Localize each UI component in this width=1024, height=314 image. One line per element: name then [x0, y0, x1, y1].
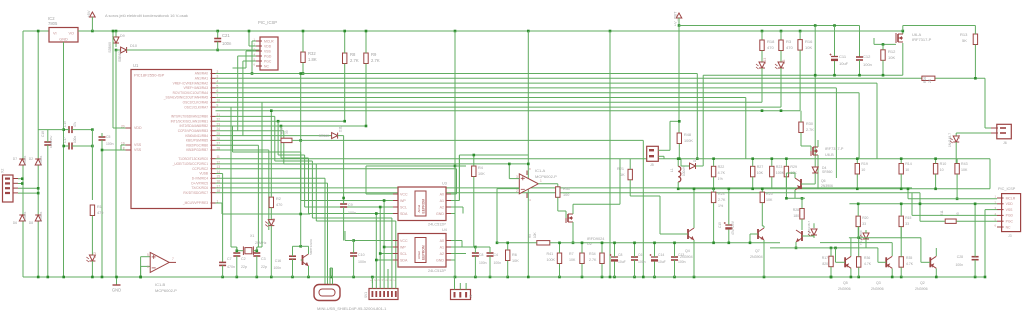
svg-text:24LC512P: 24LC512P — [428, 223, 446, 227]
wire xtal right — [253, 250, 256, 252]
svg-text:7: 7 — [172, 257, 174, 261]
junction — [21, 177, 24, 180]
svg-text:33: 33 — [862, 222, 866, 226]
opamp A power stubs — [526, 171, 528, 176]
junction — [902, 30, 905, 33]
svg-text:VREF+/AN3/RA3: VREF+/AN3/RA3 — [183, 86, 208, 90]
connector J3 PIC_ICSP bottom — [994, 194, 1020, 232]
svg-text:OSC1/CLKI/RA7: OSC1/CLKI/RA7 — [184, 105, 208, 109]
wire R31 bot — [557, 197, 559, 211]
svg-text:100n: 100n — [494, 261, 502, 265]
wire R32 bottom — [302, 63, 304, 74]
wire j1 stub1 — [459, 283, 461, 290]
resistor R18 — [760, 40, 764, 51]
wire C18 top — [47, 130, 49, 142]
LED D12 — [86, 255, 95, 262]
svg-text:_MCLR/VPP/RE3: _MCLR/VPP/RE3 — [182, 201, 208, 205]
svg-text:Q2: Q2 — [920, 281, 925, 285]
wire R2 mid — [270, 208, 272, 220]
resistor R7 — [580, 253, 584, 264]
wire r6 bot — [507, 261, 509, 278]
wire j5 to r48 — [670, 120, 679, 122]
capacitor C15 47uF — [724, 222, 733, 230]
wire ICSP VSS stub — [246, 50, 256, 52]
wire drain up2 — [619, 159, 621, 205]
junction — [115, 30, 118, 33]
resistor R26 horizontal — [922, 76, 935, 80]
resistor R24 — [711, 192, 715, 203]
svg-text:R4: R4 — [478, 166, 483, 170]
wire col 643 — [642, 140, 644, 277]
svg-text:R26: R26 — [923, 77, 927, 83]
svg-text:C8: C8 — [618, 253, 622, 257]
junction — [799, 30, 802, 33]
resistor R6 — [506, 250, 510, 261]
diode D10 S5B60 — [121, 47, 127, 53]
svg-text:C11: C11 — [839, 54, 847, 59]
wire icsp2 mclr — [908, 198, 997, 200]
svg-text:R22: R22 — [718, 165, 725, 169]
junction — [375, 259, 378, 262]
svg-text:D-/VM/RC4: D-/VM/RC4 — [192, 177, 209, 181]
resistor R36 — [857, 257, 861, 268]
svg-text:INT0/FLT0/SDI/AN12/RB0: INT0/FLT0/SDI/AN12/RB0 — [171, 115, 208, 119]
wire vertical x528 — [527, 31, 529, 277]
wire SCL col — [379, 207, 381, 283]
wire C3 bot — [256, 256, 258, 277]
resistor R32 — [301, 52, 305, 63]
junction gnd rail — [633, 276, 636, 279]
wire R13 top — [974, 26, 976, 35]
wire c15 top — [728, 189, 730, 225]
svg-text:U1: U1 — [133, 63, 139, 68]
wire C11 bottom — [834, 61, 836, 75]
wire R16 top — [799, 31, 801, 40]
wire U4 GND — [451, 259, 455, 261]
wire U3 WP — [384, 200, 393, 202]
wire hdr gnd col — [371, 277, 373, 283]
junction gnd rail — [974, 276, 977, 279]
junction gnd rail — [371, 276, 374, 279]
svg-text:1%: 1% — [718, 204, 724, 208]
junction gnd rail — [236, 276, 239, 279]
wire C21 node to ICSP1 — [218, 49, 260, 51]
junction — [248, 30, 251, 33]
wire stair r2 — [277, 121, 279, 155]
wire SCL row — [305, 206, 381, 208]
wire bus B row — [216, 139, 282, 141]
svg-text:100n: 100n — [73, 136, 77, 143]
svg-text:R25: R25 — [766, 192, 773, 196]
wire r25 top — [761, 189, 763, 192]
junction gnd rail — [454, 276, 457, 279]
svg-text:C8: C8 — [479, 253, 483, 257]
resistor R31 — [556, 187, 560, 198]
junction — [633, 242, 636, 245]
wire icsp2 vss — [985, 209, 997, 211]
svg-text:D9: D9 — [120, 34, 125, 38]
svg-text:C12: C12 — [863, 54, 871, 59]
wire U3 A0 — [451, 193, 456, 195]
wire U4 a0a1 join — [461, 241, 463, 248]
svg-text:100n: 100n — [106, 142, 114, 146]
svg-text:Q3: Q3 — [876, 281, 881, 285]
wire j1 p1 — [454, 277, 456, 283]
resistor R14 — [899, 164, 903, 175]
wire U4 A1 — [451, 246, 462, 248]
wire R14 top — [900, 159, 902, 164]
svg-text:D13: D13 — [763, 58, 767, 64]
wire q6 emit down — [794, 190, 796, 198]
svg-text:R6: R6 — [512, 253, 517, 257]
wire c14 bot — [654, 261, 656, 277]
svg-text:NC: NC — [264, 64, 269, 68]
wire bus B row — [216, 115, 275, 117]
wire WP row — [301, 200, 384, 202]
wire xtal feed l — [231, 246, 237, 248]
junction — [677, 188, 680, 191]
junction — [280, 125, 283, 128]
svg-text:180: 180 — [793, 214, 799, 218]
wire row2 drop to J6 — [984, 78, 986, 128]
svg-text:2N3906: 2N3906 — [871, 287, 884, 291]
resistor R8 — [343, 53, 347, 64]
wire bus A row — [216, 87, 837, 89]
svg-text:470: 470 — [767, 45, 774, 50]
wire VSS left b — [121, 149, 126, 151]
n-mosfet U2 IRFD9024 — [566, 213, 573, 223]
junction gnd rail — [62, 276, 65, 279]
wire MCLR right — [222, 213, 310, 215]
wire R43 bot — [956, 174, 958, 199]
junction gnd rail — [307, 276, 310, 279]
svg-text:R34: R34 — [589, 252, 596, 256]
junction — [833, 74, 836, 77]
svg-text:4.7K: 4.7K — [906, 262, 914, 266]
wire X2p3 — [18, 187, 38, 189]
svg-text:R1: R1 — [97, 205, 102, 209]
wire q7 base drop — [749, 234, 751, 243]
wire VDD up to rail — [112, 31, 114, 128]
wire r29 ext — [785, 173, 787, 198]
svg-text:J6: J6 — [1003, 141, 1007, 145]
capacitor C2 22p — [233, 253, 240, 256]
svg-text:R8: R8 — [350, 52, 356, 57]
wire MCLR stub — [216, 202, 223, 204]
wire VTBT cap node line — [703, 74, 903, 76]
wire d1 l — [681, 165, 690, 167]
wire bus C row — [216, 173, 223, 175]
wire j5 p1 — [658, 149, 670, 151]
svg-text:C18: C18 — [41, 131, 45, 137]
wire R20 top — [857, 204, 859, 216]
resistor R3 — [779, 40, 783, 51]
junction — [375, 212, 378, 215]
junction gnd rail — [601, 276, 604, 279]
wire cascade col2 — [304, 155, 306, 207]
svg-text:J5: J5 — [650, 163, 654, 167]
wire sv1 stub3 — [383, 283, 385, 289]
wire q4 base — [660, 233, 688, 235]
wire header col g — [395, 221, 397, 283]
svg-text:RCV/T0CKI/C1OUT/RA4: RCV/T0CKI/C1OUT/RA4 — [173, 91, 209, 95]
resistor R2 — [269, 197, 273, 208]
wire opampB plus feed — [140, 257, 142, 277]
wire q6 coll join — [786, 172, 795, 174]
wire J6 pin1 — [985, 127, 991, 129]
wire T1 emit down — [308, 266, 310, 277]
wire T1 base stub — [301, 259, 303, 261]
wire +5V rail c — [455, 30, 903, 32]
svg-text:R30: R30 — [806, 122, 813, 126]
svg-text:VI: VI — [53, 32, 57, 36]
svg-text:SMBT2222A: SMBT2222A — [309, 239, 313, 255]
wire A in+ — [509, 178, 519, 180]
svg-text:VUSB: VUSB — [199, 172, 208, 176]
svg-text:KBI3/PGD/RB7: KBI3/PGD/RB7 — [186, 148, 208, 152]
wire R12 top — [882, 44, 884, 49]
wire cascade col5 — [315, 164, 317, 221]
wire q10 base ext — [802, 235, 814, 237]
wire L1 top — [677, 159, 679, 167]
wire c17 r — [72, 145, 92, 147]
svg-text:2N3904: 2N3904 — [680, 255, 693, 259]
wire in+ up — [508, 164, 510, 179]
junction — [801, 197, 804, 200]
wire q7 base — [750, 233, 758, 235]
wire bus A row — [216, 73, 698, 75]
junction — [749, 242, 752, 245]
junction — [830, 247, 833, 250]
junction — [383, 199, 386, 202]
junction — [609, 30, 612, 33]
wire row5 drop — [858, 93, 860, 159]
diode D6b 1N4001 — [19, 215, 25, 221]
wire u6b drain down — [817, 155, 819, 162]
svg-text:470: 470 — [276, 203, 282, 207]
wire bus B row — [216, 125, 367, 127]
wire opampB in- — [141, 265, 151, 267]
junction — [379, 206, 382, 209]
svg-text:S5B60: S5B60 — [118, 51, 122, 62]
wire SDA col — [375, 214, 377, 284]
svg-text:10K: 10K — [888, 55, 895, 60]
junction — [653, 242, 656, 245]
svg-text:10K: 10K — [766, 198, 773, 202]
junction q2 emit — [935, 276, 938, 279]
wire PGC col — [242, 61, 244, 136]
junction — [454, 165, 457, 168]
svg-text:INT2/SDA/AN8/RB2: INT2/SDA/AN8/RB2 — [179, 124, 208, 128]
svg-text:10uF: 10uF — [618, 260, 626, 264]
wire q2 emit dn — [935, 269, 937, 278]
svg-text:A2: A2 — [440, 252, 444, 256]
junction — [365, 30, 368, 33]
svg-text:D5: D5 — [272, 218, 276, 222]
resistor R41 — [557, 253, 561, 264]
wire VSS to C5 area — [102, 149, 121, 151]
wire SDA row — [309, 213, 377, 215]
wire R29 bot — [785, 177, 787, 189]
svg-text:VDD: VDD — [1006, 202, 1014, 206]
wire col92 mid — [91, 130, 93, 146]
junction — [857, 236, 860, 239]
wire R19 bot — [856, 174, 858, 189]
wire U3 GND — [451, 213, 455, 215]
wire C2 top — [236, 247, 238, 253]
resistor R12 — [881, 50, 885, 61]
wire R20 bot — [857, 227, 859, 239]
pin header SV1 — [369, 289, 398, 300]
wire c4 top — [489, 247, 491, 253]
svg-text:10: 10 — [861, 168, 865, 172]
wire U4 SDA — [376, 259, 393, 261]
svg-text:KBI0/AN11/RB4: KBI0/AN11/RB4 — [185, 134, 208, 138]
junction — [678, 120, 681, 123]
svg-text:C21: C21 — [222, 33, 230, 38]
junction — [761, 30, 764, 33]
svg-text:GND: GND — [59, 38, 68, 42]
wire r25 bot — [761, 203, 763, 226]
svg-text:470n: 470n — [227, 265, 235, 269]
svg-text:820: 820 — [822, 262, 828, 266]
svg-text:SR560: SR560 — [319, 134, 329, 138]
svg-text:2.7K: 2.7K — [718, 198, 726, 202]
svg-text:R19: R19 — [861, 162, 868, 166]
wire j5 up — [669, 121, 671, 150]
svg-text:X2: X2 — [1, 169, 5, 173]
svg-text:CCP1/RC2: CCP1/RC2 — [192, 167, 208, 171]
wire R13 bottom — [974, 45, 976, 79]
svg-text:IC1-A: IC1-A — [535, 168, 546, 173]
svg-text:PGD: PGD — [264, 54, 272, 58]
wire U3 VCC — [366, 193, 393, 195]
junction — [785, 197, 788, 200]
wire VSS down — [245, 51, 247, 68]
wire WP stair x — [232, 126, 234, 152]
junction — [343, 120, 346, 123]
wire icsp2 mclr up — [907, 189, 909, 199]
svg-text:EEPROM: EEPROM — [421, 199, 425, 214]
wire A0 col — [455, 169, 457, 194]
junction — [236, 249, 239, 252]
wire q4 base riser — [659, 196, 661, 234]
wire R18 top — [761, 31, 763, 40]
junction — [712, 242, 715, 245]
wire ICSP VDD stub — [249, 45, 256, 47]
junction gnd rail — [474, 276, 477, 279]
wire U4 vcc up — [344, 231, 346, 241]
wire d4 bot — [814, 173, 816, 184]
svg-text:L1: L1 — [670, 168, 674, 172]
junction — [900, 157, 903, 160]
wire R18 to LED — [761, 51, 763, 63]
junction — [365, 125, 368, 128]
resistor R16 — [798, 40, 802, 51]
resistor R23 — [770, 166, 774, 177]
junction — [37, 192, 40, 195]
crystal X1 20MHz — [243, 246, 253, 255]
wire bus A row — [216, 92, 860, 94]
svg-text:_SS/HLVDIN/C2OUT/AN4/RA5: _SS/HLVDIN/C2OUT/AN4/RA5 — [163, 96, 208, 100]
wire usb gnd join — [330, 267, 333, 269]
wire right vert 990 — [989, 159, 991, 189]
wire L1 bot — [677, 182, 679, 189]
wire r5 right — [550, 242, 573, 244]
capacitor C19h — [69, 126, 72, 133]
wire row 161 — [275, 160, 313, 162]
wire q3 coll up — [891, 243, 893, 256]
wire row3 drop — [876, 83, 878, 159]
wire sv1 p1 — [371, 277, 373, 283]
wire R15 top — [900, 204, 902, 216]
wire q7 emit down — [763, 240, 765, 277]
junction — [728, 188, 731, 191]
wire +5V input to IC2 — [23, 30, 49, 32]
junction gnd rail — [642, 276, 645, 279]
junction — [761, 188, 764, 191]
svg-text:100n/25v: 100n/25v — [49, 135, 53, 148]
junction — [712, 188, 715, 191]
wire IC2 GND down — [63, 42, 65, 277]
wire icsp2 vss drop — [984, 210, 986, 277]
junction — [601, 242, 604, 245]
wire WP col — [383, 201, 385, 284]
svg-text:SCL: SCL — [400, 252, 407, 256]
wire VSS down to gnd — [101, 150, 103, 277]
wire PGD col — [237, 56, 239, 131]
wire A0 col — [455, 169, 457, 194]
wire c10 top — [353, 241, 355, 254]
wire C2 bot — [236, 256, 238, 277]
power symbol +5V — [86, 10, 95, 18]
junction — [780, 109, 783, 112]
junction — [342, 197, 345, 200]
junction — [728, 242, 731, 245]
junction — [496, 242, 499, 245]
wire LED down — [91, 261, 93, 277]
svg-text:10K: 10K — [478, 172, 485, 176]
p-mosfet U6-A IRF7317-P — [896, 33, 903, 43]
junction gnd rail — [613, 276, 616, 279]
junction — [900, 203, 903, 206]
wire bus B row — [216, 149, 269, 151]
wire bus B row — [216, 135, 332, 137]
junction — [256, 249, 259, 252]
capacitor C9 100n — [340, 204, 347, 207]
junction — [379, 252, 382, 255]
wire bus C row — [216, 187, 913, 189]
junction — [677, 157, 680, 160]
svg-text:KBI1/PGM/RB5: KBI1/PGM/RB5 — [186, 139, 208, 143]
wire pgd up — [911, 193, 913, 216]
wire A in- — [497, 188, 519, 190]
resistor R25 — [760, 192, 764, 203]
wire osc2 column — [230, 107, 232, 247]
svg-text:D+/VP/RC5: D+/VP/RC5 — [191, 181, 208, 185]
resistor R20 — [856, 216, 860, 227]
junction — [216, 49, 219, 52]
wire sv1 stub5 — [391, 283, 393, 289]
diode D1 SR560 — [690, 163, 696, 169]
wire R15-R35 column — [900, 227, 902, 257]
junction — [454, 30, 457, 33]
wire vcc row — [366, 165, 455, 167]
wire sv1 stub2 — [379, 283, 381, 289]
wire A1 col — [458, 155, 460, 201]
svg-text:10K: 10K — [512, 259, 519, 263]
junction — [270, 109, 273, 112]
